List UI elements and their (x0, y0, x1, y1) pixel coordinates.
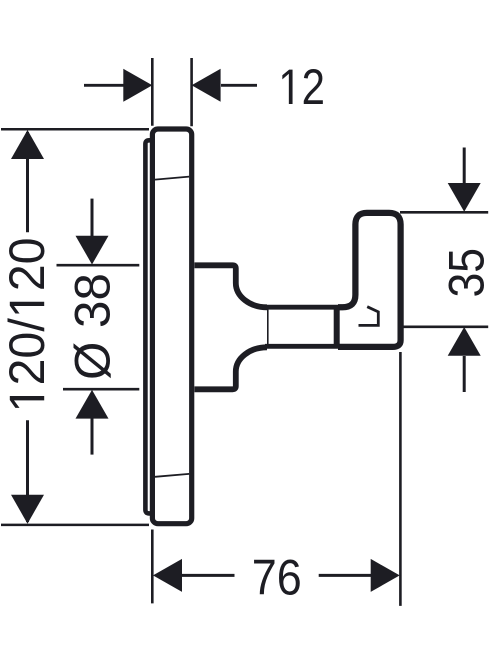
dim 120/120 arrow up (11, 130, 44, 159)
wall plate front outline (152, 129, 191, 524)
dim 35 tail top (463, 148, 466, 184)
wall plate back flange (145, 140, 150, 513)
dim diameter 38 tail top (91, 199, 94, 237)
dim diameter 38 tail bottom (91, 418, 94, 454)
handle indicator mark (359, 307, 379, 326)
stem/handle junction (334, 305, 340, 348)
dim 76 arrow left (153, 559, 182, 592)
dim 76 line right segment (319, 574, 372, 577)
stem top line (265, 305, 340, 310)
dim 120/120 line lower segment (26, 420, 29, 522)
dim 120/120 extension line top (1, 128, 149, 131)
dim 12 extension line left (151, 58, 154, 126)
dim text 12 (282, 58, 325, 114)
dim 12 tail right (221, 84, 257, 87)
dim 120/120 extension line bottom (1, 524, 149, 527)
dim 76 extension line left (151, 530, 154, 604)
dim 12 arrow left (123, 69, 152, 102)
dim 76 arrow right (371, 559, 400, 592)
dim 35 arrow up (448, 327, 481, 356)
dim 120/120 line upper segment (26, 132, 29, 232)
plate seam top (155, 177, 189, 180)
dim 35 arrow down (448, 183, 481, 212)
dim 76 line left segment (182, 574, 235, 577)
dim 35 tick bottom (403, 325, 489, 328)
dim diameter 38 arrow up (76, 390, 109, 419)
dim diameter 38 tick top (57, 264, 140, 267)
dim diameter 38 tick bottom (63, 388, 139, 391)
svg-text:20: 20 (0, 237, 55, 291)
plate seam bottom (155, 474, 189, 477)
escutcheon cone top contour (195, 265, 268, 307)
dim 35 tail bottom (463, 356, 466, 392)
handle lever outline (338, 213, 401, 347)
cone/stem junction edge (267, 308, 269, 346)
stem bottom line (265, 344, 340, 349)
svg-text:20/: 20/ (0, 318, 55, 386)
dim text 120/120 (0, 237, 55, 407)
dim diameter 38 arrow down (76, 236, 109, 265)
dim 120/120 arrow down (11, 495, 44, 524)
dim 12 arrow right (192, 69, 221, 102)
svg-text:2: 2 (302, 58, 325, 114)
svg-text:Ø 38: Ø 38 (64, 273, 120, 380)
svg-text:35: 35 (439, 248, 495, 298)
dim 12 tail left (84, 84, 124, 87)
escutcheon cone bottom contour (195, 347, 268, 389)
svg-text:76: 76 (252, 549, 302, 605)
dim 12 extension line right (190, 58, 193, 126)
dim 76 extension line right (399, 352, 402, 606)
dim 35 tick top (400, 211, 488, 214)
